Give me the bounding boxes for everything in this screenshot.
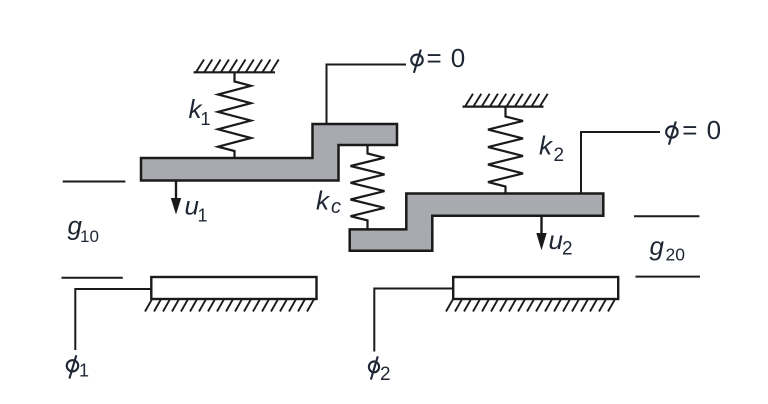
svg-text:20: 20 xyxy=(666,245,686,265)
svg-text:=: = xyxy=(682,115,697,145)
svg-text:2: 2 xyxy=(380,364,391,385)
svg-text:2: 2 xyxy=(554,145,565,166)
svg-text:1: 1 xyxy=(198,205,208,225)
svg-text:k: k xyxy=(316,186,331,216)
svg-text:=: = xyxy=(427,43,442,73)
svg-text:1: 1 xyxy=(79,361,89,381)
svg-text:0: 0 xyxy=(451,43,465,73)
svg-text:c: c xyxy=(331,196,341,218)
svg-text:1: 1 xyxy=(201,109,211,129)
svg-text:g: g xyxy=(650,231,665,261)
svg-text:k: k xyxy=(539,131,554,161)
svg-text:0: 0 xyxy=(707,115,721,145)
svg-text:10: 10 xyxy=(80,227,99,246)
svg-text:u: u xyxy=(549,225,563,255)
svg-text:2: 2 xyxy=(562,239,573,260)
